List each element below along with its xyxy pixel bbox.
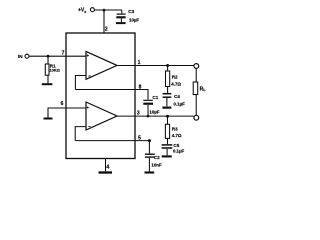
ground (C3)	[116, 22, 126, 24]
resistor RL	[193, 69, 198, 116]
svg-text:C5: C5	[173, 143, 179, 148]
capacitor C1	[143, 100, 153, 117]
wire +Vs to C3	[95, 9, 123, 11]
svg-text:10KΩ: 10KΩ	[49, 68, 60, 73]
svg-text:3: 3	[137, 110, 140, 116]
ground (C2)	[145, 171, 155, 173]
svg-text:C1: C1	[152, 95, 158, 100]
svg-text:1: 1	[138, 60, 141, 66]
ground (C4)	[162, 106, 171, 108]
node junction C2	[148, 139, 151, 142]
plus mark U1b	[87, 106, 89, 108]
wire output pin 1	[117, 65, 194, 67]
svg-text:C3: C3	[128, 9, 134, 14]
capacitor C2	[145, 141, 155, 172]
svg-text:4.7Ω: 4.7Ω	[171, 82, 181, 87]
resistor R1	[45, 56, 49, 83]
svg-text:6: 6	[61, 101, 64, 107]
terminal IN	[25, 54, 29, 58]
wire IN to op-amp	[29, 55, 86, 57]
wire output pin 3	[117, 115, 194, 117]
svg-text:0.1µF: 0.1µF	[174, 102, 186, 107]
ground (R1)	[42, 83, 53, 85]
ground (C5)	[162, 155, 172, 157]
node junction R3	[166, 115, 169, 118]
capacitor C4	[163, 94, 172, 107]
op-amp U1b	[86, 102, 117, 130]
resistor R3	[165, 116, 169, 144]
svg-text:2: 2	[105, 26, 108, 32]
op-amp U1a	[86, 51, 117, 79]
svg-text:8: 8	[139, 84, 142, 90]
node junction R2	[166, 64, 169, 67]
terminal OUT top	[194, 64, 199, 69]
svg-text:C2: C2	[154, 155, 160, 160]
wire pin 8 to C1	[75, 90, 148, 100]
wire feedback U1b	[75, 127, 86, 141]
node junction R1	[47, 55, 50, 58]
capacitor C3	[116, 10, 125, 22]
svg-text:IN: IN	[18, 54, 23, 60]
wire pin 4	[105, 159, 107, 172]
svg-text:RL: RL	[200, 87, 207, 93]
wire pin 2	[103, 10, 105, 33]
node junction pin2	[103, 9, 106, 12]
svg-text:C4: C4	[174, 94, 180, 99]
svg-text:10µF: 10µF	[129, 17, 139, 22]
terminal +Vs	[90, 8, 94, 12]
ground (pin 4)	[99, 171, 113, 173]
svg-text:R3: R3	[172, 127, 178, 132]
ground (pin 6)	[44, 118, 53, 120]
svg-text:4: 4	[106, 164, 109, 170]
minus mark U1a	[88, 75, 90, 77]
wire feedback U1a	[75, 76, 86, 90]
capacitor C5	[162, 145, 173, 155]
resistor R2	[166, 66, 170, 93]
plus mark U1a	[87, 55, 89, 57]
wire pin 6	[48, 108, 86, 118]
svg-text:7: 7	[62, 51, 65, 57]
svg-text:10nF: 10nF	[151, 162, 162, 167]
svg-text:5: 5	[138, 135, 141, 141]
svg-text:0.1µF: 0.1µF	[173, 149, 185, 154]
svg-text:10µF: 10µF	[149, 110, 159, 115]
minus mark U1b	[88, 126, 90, 128]
wire pin 5 to C2	[75, 140, 149, 142]
IC box U1	[66, 33, 135, 159]
svg-text:R2: R2	[172, 74, 178, 79]
svg-text:4.7Ω: 4.7Ω	[172, 133, 182, 138]
terminal OUT bottom	[194, 115, 199, 120]
